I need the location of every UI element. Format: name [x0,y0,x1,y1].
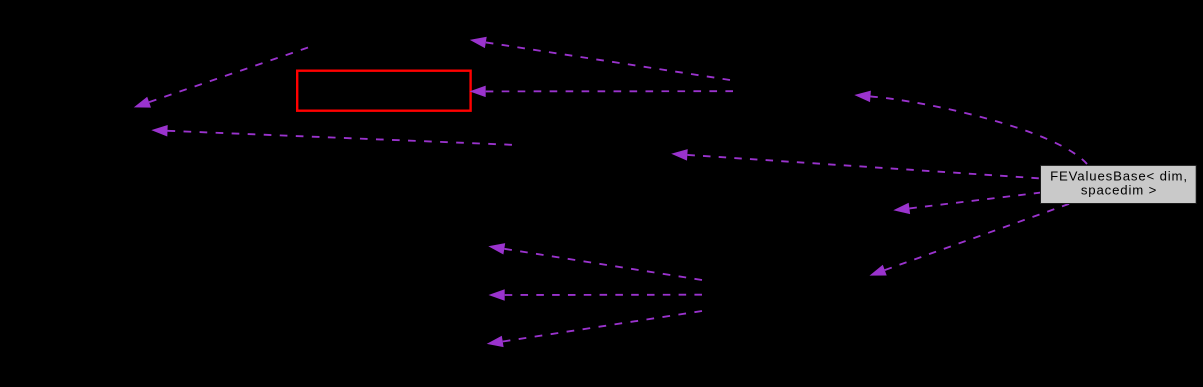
node FEValuesBase< dim, spacedim > [1041,165,1197,203]
arrowhead L6 [854,91,871,103]
arrowhead LB [893,203,910,214]
arrowhead F1 [488,243,505,254]
arrowhead L3 [470,86,486,98]
edge LB wire [909,193,1041,209]
svg-text:spacedim >: spacedim > [1081,183,1157,198]
edge F3 wire [503,311,702,342]
edge L2 wire [486,42,730,80]
arrowhead L4 [151,125,167,137]
red node (truncated graph box) [297,71,470,111]
edge L6 wire (curved) [870,96,1087,164]
edge L5 wire [687,155,1038,178]
edge L1 wire [149,48,308,103]
edge LC wire [885,204,1069,270]
edge L4 wire [168,131,513,145]
arrowhead F3 [487,336,504,347]
edge L3 wire [486,90,733,92]
svg-text:FEValuesBase< dim,: FEValuesBase< dim, [1050,169,1188,184]
arrowhead LC [870,265,887,276]
arrowhead F2 [489,289,505,301]
edge F2 wire [505,294,702,296]
edge F1 wire [504,249,702,280]
arrowhead L5 [671,149,688,161]
arrowhead L2 [470,37,487,48]
arrowhead L1 [134,97,151,108]
